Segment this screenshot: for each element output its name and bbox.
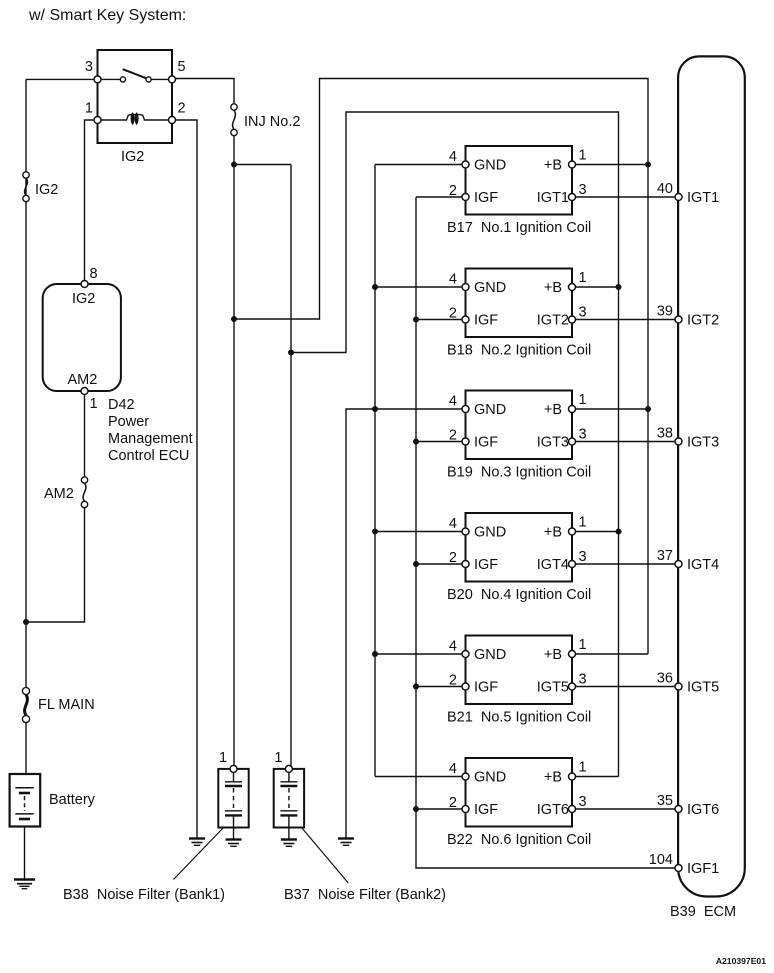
fuse AM2 <box>81 477 87 508</box>
junction dot GND bus B18 <box>372 284 378 290</box>
B18 IGF pin label <box>474 313 498 329</box>
B19 pin 4 number <box>449 394 457 410</box>
ECM pin 39 number <box>657 304 673 320</box>
svg-text:2: 2 <box>449 795 457 811</box>
svg-text:3: 3 <box>85 59 93 75</box>
B22 pin 2 number <box>449 795 457 811</box>
ECM pin 36 IGT5 <box>675 683 682 690</box>
B18 pin 4 <box>462 284 469 291</box>
svg-text:35: 35 <box>657 793 673 809</box>
svg-text:IGF: IGF <box>474 680 498 696</box>
ECM B39 designator label <box>670 904 736 920</box>
B20 designator label <box>447 587 591 603</box>
B21 pin 2 <box>462 683 469 690</box>
wire B20 GND to GND bus <box>375 531 463 533</box>
relay IG2 pin 3 <box>94 76 101 83</box>
svg-text:1: 1 <box>579 270 587 286</box>
svg-text:1: 1 <box>274 750 282 766</box>
B37 pointer line <box>302 828 349 884</box>
B20 IGT4 pin label <box>537 557 569 573</box>
relay IG2 box <box>98 50 173 143</box>
B22 pin 3 <box>569 806 576 813</box>
wire B17 IGT1 to ECM <box>575 196 676 198</box>
svg-text:3: 3 <box>579 305 587 321</box>
ground (B38) <box>226 840 242 847</box>
B20 pin 2 number <box>449 550 457 566</box>
B37 pin 1 <box>285 765 292 772</box>
ECM IGT2 net label <box>687 313 719 329</box>
ignition coil B19 box <box>466 391 573 460</box>
svg-text:B37 Noise Filter (Bank2): B37 Noise Filter (Bank2) <box>284 887 446 903</box>
battery box <box>10 774 41 827</box>
svg-text:1: 1 <box>579 392 587 408</box>
noise filter B38 box <box>218 769 248 828</box>
wire B22 +B to +B bus <box>575 776 619 778</box>
B21 pin 4 <box>462 651 469 658</box>
B22 pin 4 number <box>449 761 457 777</box>
ECM pin 104 IGF1 <box>675 865 682 872</box>
B18 pin 1 number <box>579 270 587 286</box>
svg-text:IGT1: IGT1 <box>537 190 569 206</box>
fuse INJ No.2 label <box>244 114 300 130</box>
B21 pin 1 number <box>579 637 587 653</box>
svg-text:3: 3 <box>579 672 587 688</box>
ECM IGT1 net label <box>687 190 719 206</box>
fuse INJ No.2 <box>231 104 237 136</box>
wire left rail upper <box>25 79 27 687</box>
svg-text:IGF: IGF <box>474 435 498 451</box>
junction dot +B bus A B19 <box>645 406 651 412</box>
junction dot GND bus B21 <box>372 651 378 657</box>
junction dot +B bus A B17 <box>645 162 651 168</box>
B21 pin 4 number <box>449 639 457 655</box>
svg-text:IGT2: IGT2 <box>687 313 719 329</box>
svg-text:IG2: IG2 <box>35 182 58 198</box>
B17 IGT1 pin label <box>537 190 569 206</box>
svg-text:B21 No.5 Ignition Coil: B21 No.5 Ignition Coil <box>447 710 591 726</box>
ground (B37) <box>281 840 297 847</box>
B19 GND pin label <box>474 402 506 418</box>
B38 pin 1 number <box>219 750 227 766</box>
svg-text:104: 104 <box>649 852 673 868</box>
svg-text:IGF: IGF <box>474 802 498 818</box>
junction dot left rail <box>23 619 29 625</box>
svg-text:B38 Noise Filter (Bank1): B38 Noise Filter (Bank1) <box>63 887 225 903</box>
wire B20 +B to +B bus <box>575 531 619 533</box>
wire B19 IGF to IGF bus <box>416 441 463 443</box>
ECM pin 40 number <box>657 181 673 197</box>
svg-text:GND: GND <box>474 280 506 296</box>
svg-text:IGT1: IGT1 <box>687 190 719 206</box>
B20 pin 1 <box>569 528 576 535</box>
B22 pin 3 number <box>579 794 587 810</box>
svg-text:2: 2 <box>449 428 457 444</box>
svg-text:IG2: IG2 <box>72 291 95 307</box>
D42 designator label <box>108 397 193 464</box>
junction dot IGF bus B18 <box>413 317 419 323</box>
svg-text:IGT3: IGT3 <box>687 435 719 451</box>
relay IG2 coil winding <box>101 114 169 124</box>
svg-text:B20 No.4 Ignition Coil: B20 No.4 Ignition Coil <box>447 587 591 603</box>
svg-text:1: 1 <box>90 396 98 412</box>
svg-text:2: 2 <box>449 306 457 322</box>
B17 designator label <box>447 220 591 236</box>
fuse FL MAIN <box>22 687 29 722</box>
ground (battery) <box>14 880 35 889</box>
svg-text:w/ Smart Key System:: w/ Smart Key System: <box>28 7 186 24</box>
svg-text:2: 2 <box>449 183 457 199</box>
relay IG2 switch blade <box>123 69 146 78</box>
svg-text:4: 4 <box>449 639 457 655</box>
svg-text:+B: +B <box>544 158 562 174</box>
svg-text:B22 No.6 Ignition Coil: B22 No.6 Ignition Coil <box>447 832 591 848</box>
svg-text:+B: +B <box>544 525 562 541</box>
junction dot +B bus B B20 <box>616 529 622 535</box>
wire B21 GND to GND bus <box>375 653 463 655</box>
wire relay pin2 branch <box>176 120 198 839</box>
B37 capacitor symbol <box>280 772 297 827</box>
svg-text:Battery: Battery <box>49 792 96 808</box>
svg-text:IGF: IGF <box>474 313 498 329</box>
wire relay pin1 branch <box>85 120 95 281</box>
B18 pin 2 number <box>449 306 457 322</box>
noise filter B37 box <box>274 769 304 828</box>
svg-text:8: 8 <box>90 266 98 282</box>
B21 IGF pin label <box>474 680 498 696</box>
wire B22 IGF to IGF bus <box>416 808 463 810</box>
svg-text:B18 No.2 Ignition Coil: B18 No.2 Ignition Coil <box>447 343 591 359</box>
fuse IG2 <box>23 172 29 202</box>
junction dot IGF bus B20 <box>413 561 419 567</box>
B20 +B pin label <box>544 525 562 541</box>
B19 pin 3 number <box>579 427 587 443</box>
svg-text:1: 1 <box>579 637 587 653</box>
wire pin3 to contact a <box>101 78 120 80</box>
wire relay pin5 to INJ line <box>176 79 235 104</box>
B38 label <box>63 887 225 903</box>
ECM IGT3 net label <box>687 435 719 451</box>
svg-text:AM2: AM2 <box>44 486 74 502</box>
B20 IGF pin label <box>474 557 498 573</box>
B20 pin 2 <box>462 561 469 568</box>
B21 pin 3 number <box>579 672 587 688</box>
fuse IG2 label <box>35 182 58 198</box>
D42 box <box>43 284 121 391</box>
B18 IGT2 pin label <box>537 313 569 329</box>
svg-text:5: 5 <box>178 59 186 75</box>
ECM pin 40 IGT1 <box>675 194 682 201</box>
B17 pin 3 <box>569 194 576 201</box>
B19 pin 3 <box>569 438 576 445</box>
ECM pin 38 IGT3 <box>675 438 682 445</box>
wire B20 IGF to IGF bus <box>416 563 463 565</box>
B22 pin 4 <box>462 773 469 780</box>
B20 pin 4 number <box>449 516 457 532</box>
wire B37 line down <box>290 165 292 766</box>
relay IG2 label <box>121 149 144 165</box>
B20 pin 4 <box>462 528 469 535</box>
svg-text:FL MAIN: FL MAIN <box>38 697 95 713</box>
ECM pin 35 IGT6 <box>675 806 682 813</box>
svg-text:1: 1 <box>579 760 587 776</box>
B38 pointer line <box>174 828 224 880</box>
wire INJ line down to B38 <box>233 136 235 766</box>
B21 pin 2 number <box>449 673 457 689</box>
svg-text:IGT4: IGT4 <box>687 557 719 573</box>
svg-text:4: 4 <box>449 272 457 288</box>
B22 designator label <box>447 832 591 848</box>
wire B17 IGF to IGF bus <box>416 196 463 198</box>
B20 GND pin label <box>474 525 506 541</box>
svg-text:Control ECU: Control ECU <box>108 448 189 464</box>
svg-text:GND: GND <box>474 402 506 418</box>
ECM pin 39 IGT2 <box>675 316 682 323</box>
battery label <box>49 792 96 808</box>
B17 IGF pin label <box>474 190 498 206</box>
title text <box>28 7 186 24</box>
B38 capacitor symbol <box>225 772 242 827</box>
wire B38 to ground <box>233 828 235 840</box>
ECM IGF1 net label <box>687 861 719 877</box>
svg-text:IGT3: IGT3 <box>537 435 569 451</box>
svg-text:40: 40 <box>657 181 673 197</box>
wire GND bus <box>374 165 376 777</box>
wire GND bus to ground drop <box>346 409 375 839</box>
ignition coil B17 box <box>466 146 573 215</box>
B18 +B pin label <box>544 280 562 296</box>
figure code <box>716 956 766 966</box>
fuse AM2 label <box>44 486 74 502</box>
wire B17 +B to +B bus <box>575 164 648 166</box>
B20 pin 3 <box>569 561 576 568</box>
B19 designator label <box>447 465 591 481</box>
svg-text:A210397E01: A210397E01 <box>716 956 766 966</box>
svg-text:4: 4 <box>449 394 457 410</box>
ground (ignition coil GND bus) <box>338 839 354 846</box>
wire pin3 to left rail <box>26 78 94 80</box>
svg-text:IGF: IGF <box>474 190 498 206</box>
D42 pin 1 <box>81 388 88 395</box>
svg-text:2: 2 <box>449 673 457 689</box>
D42 AM2 pin label <box>68 372 98 388</box>
B17 pin 4 number <box>449 149 457 165</box>
svg-text:38: 38 <box>657 426 673 442</box>
wire contact b to pin5 <box>151 78 168 80</box>
B22 IGT6 pin label <box>537 802 569 818</box>
B21 pin 3 <box>569 683 576 690</box>
B19 IGT3 pin label <box>537 435 569 451</box>
junction dot IGF bus B21 <box>413 684 419 690</box>
ignition coil B20 box <box>466 513 573 582</box>
relay IG2 switch contact a <box>120 77 125 82</box>
fuse FL MAIN label <box>38 697 95 713</box>
junction dot B37 line branch to bus B <box>288 350 294 356</box>
svg-text:B19 No.3 Ignition Coil: B19 No.3 Ignition Coil <box>447 465 591 481</box>
svg-text:2: 2 <box>449 550 457 566</box>
B38 pin 1 <box>230 765 237 772</box>
B17 pin 1 number <box>579 148 587 164</box>
relay IG2 pin 5 <box>169 76 176 83</box>
svg-text:3: 3 <box>579 182 587 198</box>
svg-text:B17 No.1 Ignition Coil: B17 No.1 Ignition Coil <box>447 220 591 236</box>
svg-text:36: 36 <box>657 671 673 687</box>
B19 IGF pin label <box>474 435 498 451</box>
B19 pin 2 <box>462 438 469 445</box>
svg-text:GND: GND <box>474 525 506 541</box>
svg-text:IGT6: IGT6 <box>537 802 569 818</box>
B17 pin 4 <box>462 161 469 168</box>
svg-text:IGT4: IGT4 <box>537 557 569 573</box>
svg-text:IGF: IGF <box>474 557 498 573</box>
ECM IGT4 net label <box>687 557 719 573</box>
B17 GND pin label <box>474 158 506 174</box>
B18 pin 3 number <box>579 305 587 321</box>
svg-text:IG2: IG2 <box>121 149 144 165</box>
B21 pin 1 <box>569 651 576 658</box>
wire branch riser bus A <box>234 79 648 655</box>
wire B19 +B to +B bus <box>575 408 648 410</box>
svg-text:GND: GND <box>474 647 506 663</box>
relay IG2 pin 2 <box>169 117 176 124</box>
wire battery to ground <box>24 827 26 880</box>
svg-text:IGT5: IGT5 <box>687 680 719 696</box>
wire B21 IGF to IGF bus <box>416 686 463 688</box>
B17 pin 3 number <box>579 182 587 198</box>
relay pin 3 number <box>85 59 93 75</box>
ignition coil B21 box <box>466 636 573 705</box>
svg-text:4: 4 <box>449 149 457 165</box>
wire B18 IGT2 to ECM <box>575 319 676 321</box>
svg-text:2: 2 <box>178 101 186 117</box>
relay IG2 switch contact b <box>146 77 151 82</box>
svg-text:B39 ECM: B39 ECM <box>670 904 736 920</box>
wire branch riser bus B <box>291 112 619 777</box>
B20 pin 1 number <box>579 515 587 531</box>
B20 pin 3 number <box>579 549 587 565</box>
svg-text:GND: GND <box>474 770 506 786</box>
svg-text:IGT6: IGT6 <box>687 802 719 818</box>
junction dot +B bus B B18 <box>616 284 622 290</box>
wire B22 GND to GND bus <box>375 776 463 778</box>
svg-text:4: 4 <box>449 516 457 532</box>
ECM pin 36 number <box>657 671 673 687</box>
wire B37 to ground <box>288 828 290 840</box>
B18 pin 3 <box>569 316 576 323</box>
B17 pin 2 <box>462 194 469 201</box>
ECM pin 37 number <box>657 548 673 564</box>
wire B20 IGT4 to ECM <box>575 563 676 565</box>
wire B19 GND to GND bus <box>375 408 463 410</box>
D42 IG2 pin label <box>72 291 95 307</box>
wire B18 GND to GND bus <box>375 286 463 288</box>
relay pin 2 number <box>178 101 186 117</box>
B18 pin 4 number <box>449 272 457 288</box>
svg-text:+B: +B <box>544 402 562 418</box>
B18 GND pin label <box>474 280 506 296</box>
ECM pin 38 number <box>657 426 673 442</box>
D42 pin 1 number <box>90 396 98 412</box>
svg-text:3: 3 <box>579 549 587 565</box>
wire B21 IGT5 to ECM <box>575 686 676 688</box>
B22 pin 2 <box>462 806 469 813</box>
wire FL MAIN to battery <box>25 723 27 774</box>
svg-text:1: 1 <box>219 750 227 766</box>
svg-text:GND: GND <box>474 158 506 174</box>
junction dot IGF bus B19 <box>413 439 419 445</box>
svg-text:1: 1 <box>579 148 587 164</box>
wire B17 GND to GND bus <box>375 164 463 166</box>
svg-text:INJ No.2: INJ No.2 <box>244 114 300 130</box>
D42 pin 8 <box>81 281 88 288</box>
ECM pin 37 IGT4 <box>675 561 682 568</box>
B22 GND pin label <box>474 770 506 786</box>
B19 pin 1 number <box>579 392 587 408</box>
wire B21 +B to +B bus <box>575 653 648 655</box>
wire B18 +B to +B bus <box>575 286 619 288</box>
svg-text:IGT2: IGT2 <box>537 313 569 329</box>
svg-text:IGF1: IGF1 <box>687 861 719 877</box>
svg-text:1: 1 <box>85 101 93 117</box>
ECM B39 outline <box>678 56 745 896</box>
ECM IGT6 net label <box>687 802 719 818</box>
B19 pin 4 <box>462 406 469 413</box>
B18 pin 2 <box>462 316 469 323</box>
svg-text:+B: +B <box>544 647 562 663</box>
junction dot INJ branch to B37 line <box>231 162 237 168</box>
B19 pin 1 <box>569 406 576 413</box>
ignition coil B22 box <box>466 758 573 827</box>
svg-text:3: 3 <box>579 794 587 810</box>
ground (relay pin2 branch) <box>189 839 205 846</box>
B21 GND pin label <box>474 647 506 663</box>
svg-text:37: 37 <box>657 548 673 564</box>
ECM pin 104 number <box>649 852 673 868</box>
B22 pin 1 <box>569 773 576 780</box>
B22 pin 1 number <box>579 760 587 776</box>
wire B22 IGT6 to ECM <box>575 808 676 810</box>
svg-text:39: 39 <box>657 304 673 320</box>
wire B19 IGT3 to ECM <box>575 441 676 443</box>
ECM pin 35 number <box>657 793 673 809</box>
B37 label <box>284 887 446 903</box>
B17 +B pin label <box>544 158 562 174</box>
svg-text:+B: +B <box>544 280 562 296</box>
svg-text:IGT5: IGT5 <box>537 680 569 696</box>
B21 IGT5 pin label <box>537 680 569 696</box>
wire branch to B37 line <box>234 164 291 166</box>
svg-text:4: 4 <box>449 761 457 777</box>
wire D42 pin1 down <box>84 395 86 481</box>
B21 designator label <box>447 710 591 726</box>
B19 pin 2 number <box>449 428 457 444</box>
svg-text:AM2: AM2 <box>68 372 98 388</box>
svg-text:Power: Power <box>108 414 149 430</box>
B18 pin 1 <box>569 284 576 291</box>
junction dot GND bus B19 <box>372 406 378 412</box>
junction dot GND bus B20 <box>372 529 378 535</box>
svg-text:3: 3 <box>579 427 587 443</box>
junction dot IGF bus B22 <box>413 806 419 812</box>
B18 designator label <box>447 343 591 359</box>
battery symbol <box>15 788 33 819</box>
B22 +B pin label <box>544 770 562 786</box>
junction dot INJ branch to bus A <box>231 316 237 322</box>
relay IG2 pin 1 <box>94 117 101 124</box>
B22 IGF pin label <box>474 802 498 818</box>
wire AM2 to left rail <box>26 508 85 622</box>
D42 pin 8 number <box>90 266 98 282</box>
svg-text:Management: Management <box>108 431 193 447</box>
